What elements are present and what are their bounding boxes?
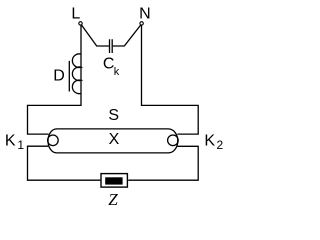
starter Z box: [101, 174, 127, 188]
svg-text:k: k: [114, 66, 120, 78]
svg-text:K: K: [5, 133, 16, 150]
svg-text:K: K: [204, 133, 215, 150]
terminal N node circle: [140, 22, 143, 25]
lamp right electrode: [168, 135, 179, 146]
svg-text:2: 2: [217, 138, 224, 152]
wire lamp left bottom pin to starter (left branch): [28, 146, 101, 180]
wire starter to lamp right bottom pin (right branch): [128, 146, 198, 180]
wire L-to-ballast loop: down coil line, left, down, to lamp left top pin: [28, 25, 82, 134]
svg-text:L: L: [71, 6, 80, 23]
lamp tube X (stadium body): [48, 129, 178, 153]
terminal L node circle: [79, 22, 82, 25]
inductor D core bar: [68, 61, 70, 92]
svg-text:Z: Z: [108, 190, 118, 209]
inductor D coil (3 arcs): [72, 54, 81, 94]
wire lamp right top pin to N terminal: [142, 25, 199, 134]
svg-text:N: N: [139, 6, 151, 23]
svg-text:C: C: [103, 56, 115, 73]
lamp left electrode: [48, 135, 59, 146]
starter Z inner bar: [105, 177, 122, 184]
svg-text:X: X: [109, 131, 120, 148]
svg-text:1: 1: [17, 138, 24, 152]
wire capacitor to N terminal (horizontal + diagonal): [113, 25, 141, 46]
svg-text:S: S: [108, 107, 119, 124]
svg-text:D: D: [53, 67, 65, 84]
wire L terminal to capacitor (diagonal + horizontal): [82, 25, 109, 46]
capacitor C_k plates: [110, 39, 113, 53]
